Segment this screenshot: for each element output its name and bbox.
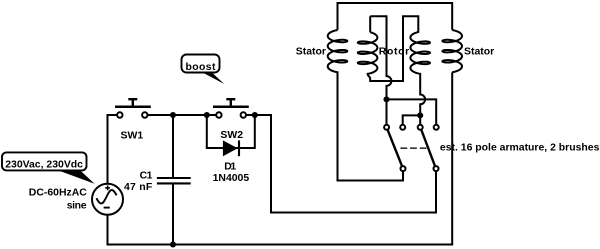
svg-text:230Vac, 230Vdc: 230Vac, 230Vdc (5, 160, 83, 171)
svg-text:SW2: SW2 (220, 130, 243, 141)
svg-text:sine: sine (67, 201, 87, 212)
svg-text:47 nF: 47 nF (124, 182, 152, 193)
svg-text:Stator: Stator (464, 46, 494, 57)
svg-text:DC-60HzAC: DC-60HzAC (29, 187, 87, 198)
svg-text:Rotor: Rotor (379, 46, 409, 57)
svg-text:D1: D1 (224, 162, 236, 173)
svg-text:boost: boost (186, 62, 216, 73)
svg-text:est. 16 pole armature, 2 brush: est. 16 pole armature, 2 brushes (440, 143, 600, 154)
svg-text:SW1: SW1 (121, 130, 144, 141)
svg-text:C1: C1 (140, 171, 153, 182)
svg-text:1N4005: 1N4005 (213, 173, 250, 184)
svg-text:Stator: Stator (296, 46, 326, 57)
